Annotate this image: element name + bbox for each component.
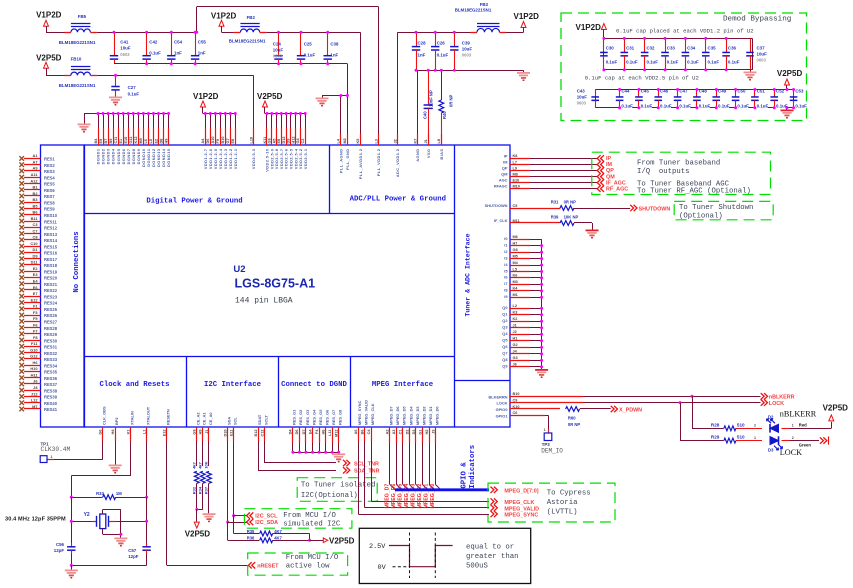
svg-text:D11: D11 <box>31 260 39 265</box>
svg-text:G8: G8 <box>513 248 518 252</box>
no-connect pin RES10 (B6) <box>19 210 57 218</box>
wire: V2P5D rail y=75.4 <box>46 75 254 145</box>
power symbol V2P5D (I2C pull-ups) <box>310 536 355 545</box>
pin VDD2.5-10 (K11) <box>263 112 270 172</box>
svg-text:K1: K1 <box>127 430 131 435</box>
svg-text:M1: M1 <box>513 293 518 297</box>
no-connect pin RES12 (C3) <box>19 222 57 230</box>
svg-text:C28: C28 <box>418 40 427 45</box>
svg-text:L11: L11 <box>328 430 332 436</box>
pin MPEG_VALID (B6) <box>361 400 489 508</box>
svg-text:RES7: RES7 <box>44 194 55 199</box>
svg-text:H1: H1 <box>513 337 518 341</box>
svg-text:0R NP: 0R NP <box>568 422 581 427</box>
pin I2 (G8) <box>504 248 543 254</box>
pin MPEG_SYNC (A6) <box>354 400 489 514</box>
svg-text:G3: G3 <box>513 356 518 360</box>
svg-text:10nF NP: 10nF NP <box>429 90 434 107</box>
no-connect pin RES33 (G12) <box>19 354 57 362</box>
svg-text:MPEG_D[7:0]: MPEG_D[7:0] <box>504 488 538 494</box>
svg-text:M10: M10 <box>513 185 520 189</box>
svg-text:LGS-8G75-A1: LGS-8G75-A1 <box>235 277 316 291</box>
pin IP (K8) with off-page connector IP <box>504 153 612 162</box>
svg-text:RES10: RES10 <box>44 213 58 218</box>
svg-text:M6: M6 <box>513 235 518 239</box>
svg-text:RES16: RES16 <box>44 251 58 256</box>
svg-text:B7: B7 <box>104 139 108 144</box>
svg-text:E12: E12 <box>163 430 167 437</box>
svg-text:greater than: greater than <box>466 553 519 561</box>
no-connect pin RES29 (F7) <box>19 329 57 337</box>
op-amp U2 chip outline LGS-8G75-A1 <box>41 145 511 427</box>
svg-text:J1: J1 <box>513 324 517 328</box>
svg-text:2: 2 <box>792 436 794 440</box>
svg-text:RF_AGC: RF_AGC <box>606 186 628 192</box>
pin Q4 (J2) <box>502 330 543 336</box>
svg-text:C57: C57 <box>128 548 137 553</box>
svg-text:0.1uF: 0.1uF <box>667 60 679 65</box>
svg-text:1: 1 <box>754 436 756 440</box>
svg-text:D9: D9 <box>287 139 291 144</box>
svg-text:RES11: RES11 <box>44 219 57 224</box>
svg-text:L7: L7 <box>513 160 517 164</box>
pin VDD2.5-1 (C2) <box>301 112 308 169</box>
svg-text:1nF: 1nF <box>418 53 426 58</box>
svg-text:RES38: RES38 <box>44 388 58 393</box>
svg-text:C41: C41 <box>120 40 129 45</box>
svg-text:MPEG_SYNC: MPEG_SYNC <box>357 400 362 425</box>
capacitor C47 <box>674 89 691 109</box>
no-connect pin RES19 (E2) <box>19 266 57 274</box>
pin VDD1.2-2 (G7) <box>226 112 233 169</box>
svg-text:RES5: RES5 <box>44 182 55 187</box>
pin RES_G5 (F4) <box>315 409 323 454</box>
off-page connector nRESET <box>248 562 279 569</box>
capacitor C27 <box>111 75 139 96</box>
capacitor C53 <box>790 89 807 109</box>
svg-text:Q6: Q6 <box>502 344 508 349</box>
pin DGND12 (L5) <box>149 112 156 167</box>
svg-text:M12: M12 <box>334 430 338 437</box>
no-connect pin RES41 (M7) <box>19 404 57 412</box>
svg-text:RES_G3: RES_G3 <box>305 409 310 425</box>
svg-text:D2: D2 <box>768 414 774 419</box>
capacitor C46 <box>654 89 671 109</box>
svg-text:C45: C45 <box>641 89 650 94</box>
svg-text:FB2: FB2 <box>247 15 256 20</box>
svg-text:PLL_VDD1.2: PLL_VDD1.2 <box>376 148 381 176</box>
no-connect pin RES18 (D11) <box>19 260 57 268</box>
svg-text:MPEG_D2: MPEG_D2 <box>417 484 423 509</box>
pin VDD2.5-3 (L10) fed from V2P5D rail <box>249 128 256 169</box>
svg-text:G10: G10 <box>30 347 37 352</box>
svg-text:VSG: VSG <box>426 149 431 159</box>
svg-text:A3: A3 <box>392 430 396 435</box>
off-page connector MPEG_D[7:0] <box>491 487 539 495</box>
svg-text:nRESET: nRESET <box>257 564 279 570</box>
no-connect pin RES39 (J12) <box>19 391 57 399</box>
no-connect pin RES3 (A9) <box>19 166 55 174</box>
svg-text:MPEG_SYNC: MPEG_SYNC <box>504 513 538 519</box>
pin Q8 (G3) <box>502 356 543 362</box>
svg-text:DEM_IO: DEM_IO <box>541 448 563 455</box>
pin RES_G4 (E4) <box>308 409 316 454</box>
svg-text:F11: F11 <box>31 341 38 346</box>
svg-text:C31: C31 <box>626 46 635 51</box>
svg-text:H12: H12 <box>291 137 295 144</box>
svg-text:C44: C44 <box>621 89 630 94</box>
svg-text:Astoria: Astoria <box>547 499 578 507</box>
svg-text:K10: K10 <box>513 405 520 409</box>
svg-text:510: 510 <box>737 435 745 440</box>
svg-text:Q7: Q7 <box>502 351 507 356</box>
svg-text:GPIO &: GPIO & <box>461 462 469 489</box>
svg-text:H6: H6 <box>321 430 325 435</box>
svg-text:J12: J12 <box>31 391 38 396</box>
svg-text:B10: B10 <box>513 392 520 396</box>
capacitor C36 <box>722 38 739 70</box>
svg-text:MPEG_D5: MPEG_D5 <box>402 406 407 425</box>
off-page connector X_PDWN <box>611 406 642 414</box>
power symbol V1P2D (FB2 input) <box>211 11 237 32</box>
svg-text:RES_G7: RES_G7 <box>331 410 336 425</box>
svg-text:LOCK: LOCK <box>769 401 784 407</box>
svg-text:From Tuner baseband: From Tuner baseband <box>637 160 720 168</box>
svg-text:QM: QM <box>501 172 507 177</box>
svg-text:10K NP: 10K NP <box>564 214 579 219</box>
svg-text:J2: J2 <box>513 330 517 334</box>
pin I6 (K6) <box>504 274 543 280</box>
svg-text:MPEG_D2: MPEG_D2 <box>421 406 426 425</box>
ferrite bead FB2 <box>229 15 266 44</box>
svg-text:PLL_GND: PLL_GND <box>345 149 350 170</box>
wire: RES_G common bus to ground <box>293 452 339 454</box>
off-page connector SCL_TNR <box>343 460 379 468</box>
pin BP2 (H4) to ground <box>111 417 119 465</box>
pin Q3 (J1) <box>502 324 543 330</box>
svg-text:E2: E2 <box>33 266 39 271</box>
svg-text:F9: F9 <box>216 139 220 143</box>
svg-text:RES41: RES41 <box>44 407 58 412</box>
pin I0 (M6) <box>504 235 541 241</box>
no-connect pin RES32 (G10) <box>19 347 57 355</box>
svg-text:PLL_AVDD1.2: PLL_AVDD1.2 <box>358 148 363 179</box>
pin RES_G6 (H6) <box>321 409 329 454</box>
svg-text:RES20: RES20 <box>44 276 58 281</box>
svg-text:0.1uF: 0.1uF <box>728 60 740 65</box>
ferrite bead FB10 <box>59 56 97 88</box>
svg-text:0.1uF: 0.1uF <box>757 104 769 109</box>
pin DGND6 (E1) <box>119 112 126 164</box>
svg-text:CE_A0: CE_A0 <box>208 412 213 425</box>
svg-text:M11: M11 <box>513 219 520 223</box>
junction dots top rails <box>113 31 116 34</box>
junction dots demod row2 <box>618 88 621 91</box>
svg-text:V2P5D: V2P5D <box>329 536 355 545</box>
svg-text:0603: 0603 <box>757 58 767 63</box>
pin QP (L9) with off-page connector QP <box>502 166 614 175</box>
svg-text:RES_G1: RES_G1 <box>292 409 297 425</box>
svg-text:C42: C42 <box>149 40 158 45</box>
svg-text:RES13: RES13 <box>44 232 58 237</box>
svg-text:M3: M3 <box>513 280 518 284</box>
svg-text:From MCU I/O: From MCU I/O <box>286 554 339 562</box>
svg-text:Q5: Q5 <box>502 338 508 343</box>
pin VSG (J1) <box>424 134 431 158</box>
svg-text:K12: K12 <box>134 137 138 144</box>
svg-text:C56: C56 <box>56 542 65 547</box>
pin SDAT (B12) to SDA_TNR <box>254 414 336 470</box>
svg-text:FB3: FB3 <box>480 2 489 7</box>
svg-text:MPEG_D1: MPEG_D1 <box>424 484 430 509</box>
power symbol V2P5D (VDD2.5 bus) <box>257 92 283 114</box>
pin DGND2 (E9) <box>99 112 106 164</box>
svg-text:C38: C38 <box>330 41 339 46</box>
pin MPEG_D1 (H2) <box>424 406 435 509</box>
svg-text:1: 1 <box>792 424 794 428</box>
svg-text:L2: L2 <box>513 304 517 308</box>
svg-text:V1P2D: V1P2D <box>36 11 62 20</box>
pin RFAGC (M10) with off-page connector RF_AGC <box>494 184 628 193</box>
pin DGND7 (E10) <box>124 112 131 164</box>
junction dots demod row1 <box>602 37 605 40</box>
power symbol V1P2D (FB5 input) <box>36 11 62 33</box>
pin VDD2.5-4 (H12) <box>291 112 298 169</box>
svg-text:RES18: RES18 <box>44 263 58 268</box>
svg-text:0.1uF cap at each VDD2.5 pin o: 0.1uF cap at each VDD2.5 pin of U2 <box>585 75 699 82</box>
svg-text:C40: C40 <box>422 111 427 119</box>
no-connect pin RES15 (C10) <box>19 241 57 249</box>
svg-text:M7: M7 <box>32 404 37 409</box>
svg-text:BLKERRN: BLKERRN <box>488 394 507 399</box>
svg-text:MPEG_VALID: MPEG_VALID <box>504 506 539 512</box>
svg-text:L5: L5 <box>513 267 517 271</box>
off-page connector I2C_SCL <box>234 512 279 519</box>
pin AGND (K7) <box>413 134 420 162</box>
pin CE_A2 (G9) with pull R32 <box>191 412 200 510</box>
svg-text:V1P2D: V1P2D <box>193 92 219 101</box>
svg-text:RES29: RES29 <box>44 332 58 337</box>
power symbol V2P5D (demod row2) <box>777 69 803 90</box>
ferrite bead FB5 <box>59 14 97 45</box>
svg-text:A2: A2 <box>386 430 390 435</box>
pin VDD2.5-5 (D9) <box>287 112 294 169</box>
svg-text:U2: U2 <box>233 264 245 275</box>
ground (PLL analog ground) <box>316 98 329 105</box>
pin Q6 (G2) <box>502 343 543 349</box>
svg-text:RES19: RES19 <box>44 269 58 274</box>
svg-text:H6: H6 <box>33 360 39 365</box>
svg-text:F7: F7 <box>33 329 38 334</box>
svg-text:RES17: RES17 <box>44 257 58 262</box>
svg-text:G11: G11 <box>129 137 133 144</box>
svg-text:L6: L6 <box>144 139 148 143</box>
svg-text:CE_A2: CE_A2 <box>196 412 201 425</box>
svg-text:144 pin LBGA: 144 pin LBGA <box>235 297 293 306</box>
svg-text:A6: A6 <box>354 430 358 435</box>
svg-text:C35: C35 <box>708 46 717 51</box>
svg-text:RES32: RES32 <box>44 351 58 356</box>
svg-text:Demod Bypassing: Demod Bypassing <box>723 16 791 24</box>
no-connect pin RES28 (F6) <box>19 322 57 330</box>
pin I5 (L5) <box>504 267 543 273</box>
svg-text:M4: M4 <box>513 261 519 265</box>
svg-text:ADC/PLL Power & Ground: ADC/PLL Power & Ground <box>350 196 446 204</box>
svg-text:RES39: RES39 <box>44 395 58 400</box>
capacitor C45 <box>635 89 652 109</box>
power symbol V1P2D (FB3 right) <box>514 12 540 32</box>
svg-text:M9: M9 <box>139 138 143 143</box>
ground (demod row1) <box>744 70 757 80</box>
wire: crystal case ground loop <box>103 509 123 537</box>
svg-text:K6: K6 <box>513 274 518 278</box>
no-connect pin RES20 (E3) <box>19 272 57 280</box>
svg-text:J3: J3 <box>431 430 435 434</box>
svg-text:E1: E1 <box>119 139 123 144</box>
no-connect pin RES38 (J8) <box>19 385 57 393</box>
svg-text:active low: active low <box>286 563 330 571</box>
wire: FB3 rail y=32.2 <box>398 32 524 34</box>
svg-text:H2: H2 <box>425 430 429 435</box>
svg-text:G9: G9 <box>193 430 197 435</box>
svg-text:E7: E7 <box>33 291 38 296</box>
svg-text:C1: C1 <box>399 430 403 435</box>
pin DGND10 (M9) <box>139 112 146 167</box>
green note box: To Tuner isolated I2C (Optional) <box>297 478 377 502</box>
svg-text:RES36: RES36 <box>44 376 58 381</box>
svg-text:K5: K5 <box>356 139 360 144</box>
svg-text:0V: 0V <box>378 564 387 572</box>
svg-text:C37: C37 <box>757 46 766 51</box>
svg-text:XTALOUT: XTALOUT <box>145 406 150 425</box>
svg-text:SCL: SCL <box>232 417 237 425</box>
svg-text:C49: C49 <box>718 89 727 94</box>
svg-text:AGC: AGC <box>499 178 508 183</box>
off-page connector I2C_SDA <box>228 519 278 526</box>
svg-text:E8: E8 <box>231 139 235 144</box>
svg-text:MPEG_D0: MPEG_D0 <box>430 484 436 509</box>
svg-text:RES37: RES37 <box>44 382 58 387</box>
pin RES_G7 (L11) <box>328 410 336 454</box>
svg-text:A7: A7 <box>33 159 38 164</box>
svg-text:E6: E6 <box>33 285 39 290</box>
svg-text:E8: E8 <box>277 139 281 144</box>
svg-text:SCL_TNR: SCL_TNR <box>354 461 379 467</box>
svg-text:RES35: RES35 <box>44 370 58 375</box>
capacitor C48 <box>693 89 710 109</box>
power symbol V2P5D (LED supply) <box>823 404 849 429</box>
svg-text:B10: B10 <box>221 137 225 144</box>
svg-text:nBLKERR: nBLKERR <box>780 410 817 419</box>
svg-text:MPEG_D0: MPEG_D0 <box>434 406 439 425</box>
svg-text:0.1uF: 0.1uF <box>699 104 711 109</box>
svg-text:RES8: RES8 <box>44 200 55 205</box>
svg-text:RES_G4: RES_G4 <box>311 409 316 425</box>
pin XTALIN (K1) <box>71 411 134 497</box>
svg-text:RES6: RES6 <box>44 188 55 193</box>
svg-text:C48: C48 <box>699 89 708 94</box>
pin RESETN (E12) to nRESET <box>163 409 249 565</box>
pin GPIO1 (C6) to test point TP3 <box>496 411 549 433</box>
svg-text:CLK_OBS: CLK_OBS <box>102 406 107 425</box>
wire: PLL_GND pin riser <box>347 96 349 146</box>
svg-text:D8: D8 <box>159 139 163 144</box>
svg-text:Q1: Q1 <box>502 312 508 317</box>
svg-text:C7: C7 <box>33 228 38 233</box>
wire: VDD1.2 bus <box>203 113 235 115</box>
svg-text:4K7: 4K7 <box>274 536 282 541</box>
svg-text:C11: C11 <box>114 137 118 144</box>
no-connect pin RES27 (F5) <box>19 316 57 324</box>
svg-text:RES12: RES12 <box>44 226 58 231</box>
svg-text:R34: R34 <box>197 486 202 494</box>
pin RES_G1 (D4) <box>289 409 297 454</box>
pin DGND13 (E2) <box>154 112 161 167</box>
pin DGND11 (L6) <box>144 112 151 167</box>
svg-text:Q2: Q2 <box>502 318 508 323</box>
pin PLL_VDD1.2 (L3) <box>374 134 381 176</box>
green note box: From Tuner baseband I/Q outputs / AGC <box>592 152 771 195</box>
pin AGC (E10) with off-page connector IF_AGC <box>499 178 626 187</box>
svg-text:D12: D12 <box>282 137 286 144</box>
svg-text:L9: L9 <box>513 166 517 170</box>
svg-text:H9: H9 <box>164 139 168 144</box>
off-page connector MPEG_SYNC <box>491 511 539 519</box>
pin DGND4 (B9) <box>109 112 116 164</box>
svg-text:I2C_SDA: I2C_SDA <box>255 520 278 526</box>
svg-text:C12: C12 <box>260 430 264 437</box>
ground (DGND bus) <box>78 124 91 131</box>
svg-text:12pF: 12pF <box>128 554 139 559</box>
svg-text:L12: L12 <box>31 398 39 403</box>
svg-text:C10: C10 <box>30 241 37 246</box>
no-connect pin RES11 (B11) <box>19 216 57 224</box>
test point TP3 DEM_IO <box>541 433 563 455</box>
svg-text:C2: C2 <box>301 139 305 144</box>
wire: LOCK branch down to R29 <box>680 403 682 441</box>
svg-text:B11: B11 <box>31 216 39 221</box>
pin MPEG_CLK (C4) <box>367 403 489 501</box>
svg-text:MPEG_D7: MPEG_D7 <box>389 406 394 425</box>
svg-text:SDAT: SDAT <box>257 414 262 425</box>
svg-text:C51: C51 <box>757 89 766 94</box>
no-connect pin RES1 (A1) <box>19 153 55 161</box>
wire: ADC_VDD1.2 riser to FB3 rail <box>397 32 399 145</box>
svg-text:BLM18EG221SN1: BLM18EG221SN1 <box>59 83 96 88</box>
svg-text:D10: D10 <box>224 430 228 437</box>
svg-text:E4: E4 <box>33 279 39 284</box>
ground (CE_A0) <box>203 514 216 521</box>
svg-text:G2: G2 <box>513 343 518 347</box>
capacitor C42 <box>142 32 161 64</box>
svg-text:0603: 0603 <box>462 53 472 58</box>
wire: V1P2D rail A y=32.2 <box>46 32 197 34</box>
resistor R33 1M (crystal feedback) <box>70 491 148 499</box>
svg-text:Q4: Q4 <box>502 331 508 336</box>
svg-text:A11: A11 <box>31 172 39 177</box>
ferrite bead FB3 <box>455 2 506 33</box>
svg-text:K11: K11 <box>263 137 267 144</box>
svg-text:I7: I7 <box>504 281 507 286</box>
pin GPIO0 (K10) with R60 to X_PDWN <box>496 405 560 412</box>
svg-text:1nF: 1nF <box>330 53 338 58</box>
svg-text:V2P5D: V2P5D <box>777 69 803 78</box>
svg-text:1nF: 1nF <box>174 51 182 56</box>
svg-text:0R NP: 0R NP <box>448 94 453 107</box>
svg-text:G4: G4 <box>296 138 300 144</box>
svg-text:1M: 1M <box>116 491 122 496</box>
svg-text:RES15: RES15 <box>44 244 58 249</box>
